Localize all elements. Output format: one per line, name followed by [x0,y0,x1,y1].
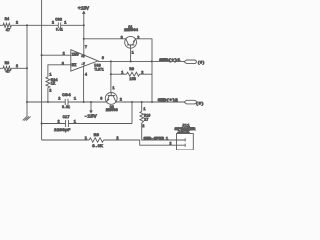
wire C17 right lead [69,123,132,125]
connector tag SHD(+)2 [184,100,196,104]
svg-text:3: 3 [62,62,64,66]
resistor R10 [140,108,151,129]
wire Q1 collector [84,38,126,40]
svg-text:C83: C83 [55,18,62,22]
svg-text:INV: INV [72,54,80,58]
svg-text:C17: C17 [63,116,71,120]
svg-text:1: 1 [49,73,51,77]
connector tag SHD(+)1 [184,60,196,64]
node junction R9 left [110,73,112,75]
resistor R8 [85,134,119,149]
svg-text:6: 6 [102,57,104,61]
svg-text:2: 2 [169,142,171,146]
wire C83 to +15V rail [61,24,84,26]
capacitor C83 [52,18,67,32]
svg-text:0.01: 0.01 [62,106,70,110]
wire C17 left lead to bus [42,123,66,125]
svg-text:2: 2 [49,89,51,93]
svg-text:47: 47 [6,29,11,33]
svg-text:1: 1 [121,71,123,75]
wire R8 to jack pin 2 [104,140,186,145]
net label SHD-SPKR [144,137,172,146]
op-amp U49 [62,46,104,78]
svg-text:7: 7 [85,46,87,50]
wire op-amp output line [98,60,184,62]
node junction C17 riser [131,101,133,103]
node junction pin4/net102 [83,101,85,103]
svg-text:2: 2 [141,71,143,75]
svg-text:R9: R9 [129,68,134,72]
wire op-amp pin 4 to -15V net [83,66,85,102]
svg-text:1: 1 [166,138,168,142]
svg-text:3: 3 [100,98,102,102]
resistor R9 [111,68,152,82]
node junction out/Q1 base [130,60,132,62]
svg-text:1K: 1K [51,83,56,87]
svg-text:-15V: -15V [84,114,97,119]
svg-text:47: 47 [6,71,11,75]
svg-text:C84: C84 [62,94,71,98]
svg-text:R3: R3 [5,62,10,66]
power +15V [78,7,90,56]
wire Q2 base vertical [110,61,112,92]
resistor R4 [0,18,18,33]
svg-text:R8: R8 [94,134,100,138]
svg-text:1: 1 [74,97,76,101]
transistor Q1 [121,26,140,62]
svg-text:150: 150 [129,78,136,82]
wire R3 to bus [11,67,27,69]
svg-text:2: 2 [63,53,65,57]
svg-text:3: 3 [121,36,123,40]
svg-text:2: 2 [58,97,60,101]
svg-text:R4: R4 [5,18,10,22]
svg-text:JACK: JACK [177,131,190,135]
svg-text:TL071: TL071 [94,68,104,72]
wire C17 riser [131,102,133,124]
wire vertical signal bus (inverting input net) [41,0,43,140]
node junction R34/net102 [47,101,49,103]
wire op-amp pin 2 input [42,54,71,56]
wire op-amp pin 3 input [48,65,71,77]
svg-text:NI: NI [72,64,77,68]
svg-text:27: 27 [144,118,149,122]
wire emitter vertical to net102 [151,61,153,102]
svg-text:2200pF: 2200pF [54,129,71,133]
svg-text:1: 1 [132,51,134,55]
wire R34 bottom lead [47,88,49,103]
wire ground net y=102 left segment [27,101,65,103]
svg-text:(9): (9) [198,61,205,66]
svg-text:2N3906: 2N3906 [106,109,118,113]
node junction out/emitter vertical [151,60,153,62]
svg-text:SHD(+)1: SHD(+)1 [159,58,180,63]
node junction bus/C17 [41,122,43,124]
svg-text:1: 1 [143,108,145,112]
wire Q1 emitter to output node [135,39,152,62]
ground [23,116,31,120]
capacitor C84 [58,94,76,110]
svg-text:3.3K: 3.3K [92,145,103,149]
power -15V [84,102,97,119]
node junction C83/rail [83,24,85,26]
svg-text:0.01: 0.01 [56,29,63,33]
node junction emitter/net102 [151,101,153,103]
svg-text:SHD(+)2: SHD(+)2 [158,98,178,103]
wire R10 top lead [141,102,143,112]
node junction rail/Q1 collector [83,38,85,40]
node junction R10 [141,101,143,103]
wire bus corner to R8 [42,139,90,141]
svg-text:-V: -V [81,62,84,66]
svg-text:4: 4 [85,74,87,78]
node junction out/Q2 base [110,60,112,62]
node junction bus1/net102 [26,101,28,103]
svg-text:1: 1 [112,87,114,91]
svg-text:2N3904: 2N3904 [124,29,139,33]
svg-text:(9): (9) [196,101,204,106]
svg-text:2: 2 [142,125,144,129]
wire R10 to jack pin 1 [142,123,186,140]
wire C84 to Q2 collector [68,101,107,103]
capacitor C17 [54,116,76,133]
connector J11 speaker jack [175,124,197,150]
node junction R3/bus [26,67,28,69]
svg-text:+V: +V [81,55,84,59]
wire vertical bus from R4 node down to ground [26,25,28,116]
node junction R4/bus [26,24,28,26]
node junction bus/pin2 [41,54,43,56]
svg-text:SHD-SPKR: SHD-SPKR [144,137,164,141]
svg-text:2: 2 [52,22,54,26]
resistor R34 [46,73,58,93]
node junction -15V/net102 [90,101,92,103]
wire R4 to C83 [11,24,58,26]
wire Q2 emitter to net102 right run [116,101,184,103]
transistor Q2 [100,87,122,113]
svg-text:1: 1 [74,120,76,124]
resistor R3 [0,62,18,75]
svg-text:1: 1 [85,137,87,141]
